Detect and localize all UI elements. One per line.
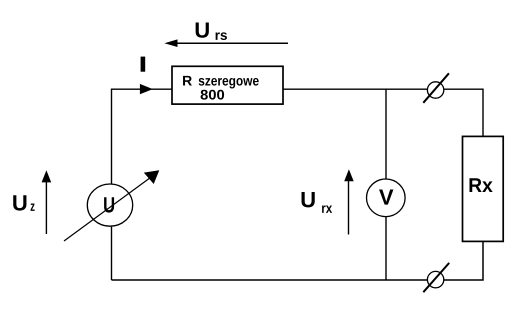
adjustment arrow through source [64, 178, 151, 242]
wire top right segment (top terminal to Rx) [444, 89, 483, 136]
source U1 [87, 184, 132, 226]
arrow U z [45, 180, 47, 234]
arrow U rx [348, 179, 350, 235]
wire bottom segment (source to bottom terminal) [112, 279, 428, 281]
label U z [13, 195, 26, 210]
label U rx [302, 192, 315, 207]
current arrowhead I on top wire [140, 84, 153, 94]
wire bottom right segment (bottom terminal to Rx) [444, 241, 483, 280]
wire voltmeter bottom branch [385, 217, 387, 280]
wire voltmeter top branch [385, 89, 387, 179]
label I [141, 57, 146, 72]
resistor R szeregowe [172, 66, 283, 104]
wire source to bottom [111, 227, 113, 280]
wire top left segment (source to R szeregowe) [112, 89, 173, 186]
label U rs [196, 22, 209, 37]
voltmeter V [367, 179, 406, 217]
wire top middle segment (R szeregowe to top terminal) [283, 88, 427, 90]
resistor Rx [463, 136, 504, 241]
arrow U rs (left pointing) [176, 42, 288, 44]
terminal bottom [427, 271, 443, 287]
terminal top [427, 82, 443, 98]
